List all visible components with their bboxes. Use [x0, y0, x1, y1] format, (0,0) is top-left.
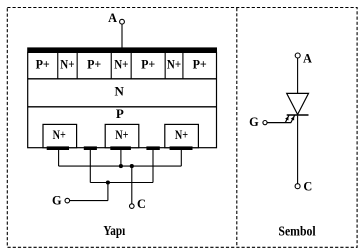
- svg-text:G: G: [52, 193, 62, 207]
- svg-text:N+: N+: [53, 127, 66, 142]
- svg-text:P+: P+: [87, 57, 101, 72]
- svg-text:Sembol: Sembol: [278, 224, 315, 239]
- svg-text:C: C: [303, 179, 312, 193]
- svg-text:N+: N+: [175, 127, 188, 142]
- svg-text:Yapı: Yapı: [103, 223, 125, 238]
- svg-text:P+: P+: [36, 57, 50, 72]
- svg-text:G: G: [249, 115, 259, 129]
- svg-text:P+: P+: [141, 57, 155, 72]
- svg-text:N+: N+: [114, 57, 128, 72]
- svg-text:N+: N+: [60, 57, 74, 72]
- svg-text:N+: N+: [167, 57, 181, 72]
- svg-text:A: A: [108, 11, 117, 25]
- svg-text:A: A: [303, 52, 312, 66]
- svg-text:P: P: [116, 106, 124, 121]
- svg-text:P+: P+: [193, 57, 207, 72]
- svg-text:N: N: [115, 84, 125, 99]
- svg-text:C: C: [137, 197, 146, 211]
- svg-text:N+: N+: [115, 127, 128, 142]
